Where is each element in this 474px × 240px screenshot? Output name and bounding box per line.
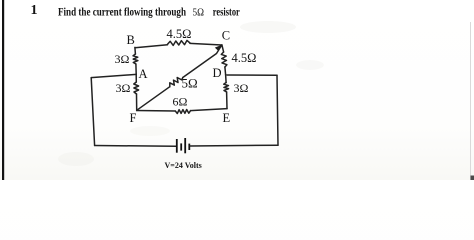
svg-text:F: F	[130, 111, 137, 125]
wire diagonal 5ohm to node C	[183, 46, 222, 78]
wire B to top resistor	[135, 45, 168, 48]
svg-text:6Ω: 6Ω	[173, 94, 188, 108]
svg-text:V=24 Volts: V=24 Volts	[165, 161, 202, 170]
resistor 5ohm diagonal zigzag	[170, 78, 183, 87]
resistor 4.5ohm C-D zigzag	[221, 52, 227, 67]
battery short plate right	[188, 144, 190, 150]
wire bottom resistor to node E	[191, 109, 227, 111]
svg-text:Find the current flowing throu: Find the current flowing through	[58, 4, 186, 18]
battery short plate	[180, 143, 182, 150]
svg-text:5Ω: 5Ω	[193, 6, 205, 18]
svg-text:5Ω: 5Ω	[182, 76, 198, 91]
svg-text:4.5Ω: 4.5Ω	[167, 27, 192, 41]
svg-text:E: E	[223, 111, 231, 125]
wire node A to left outer corner	[91, 74, 136, 77]
resistor 4.5ohm B-C zigzag	[168, 40, 191, 45]
wire to node D	[224, 67, 227, 75]
resistor 6ohm F-E zigzag	[175, 110, 190, 114]
wire A down lead	[135, 74, 137, 82]
svg-text:D: D	[213, 66, 222, 80]
wire F to bottom resistor	[137, 110, 176, 113]
wire bottom outer to battery	[95, 145, 176, 148]
wire B down lead	[134, 47, 137, 54]
svg-text:B: B	[127, 33, 135, 47]
svg-text:1: 1	[31, 3, 38, 18]
wire to node A	[135, 64, 137, 74]
wire node D to right outer corner	[227, 74, 277, 76]
svg-text:4.5Ω: 4.5Ω	[232, 51, 257, 65]
svg-text:A: A	[139, 67, 148, 81]
arrowhead on diagonal at C	[215, 45, 222, 51]
battery long plate right	[184, 138, 186, 153]
svg-text:C: C	[222, 28, 230, 42]
wire C down lead	[222, 45, 224, 52]
wire diagonal F to 5ohm	[137, 87, 170, 111]
svg-text:3Ω: 3Ω	[116, 81, 131, 95]
wire left outer vertical	[91, 78, 94, 146]
resistor 3ohm D-E zigzag	[224, 83, 229, 93]
battery long plate left	[176, 139, 178, 153]
resistor 3ohm B-A zigzag	[133, 54, 138, 64]
svg-text:3Ω: 3Ω	[115, 52, 130, 66]
wire to node E	[226, 92, 228, 109]
wire to node F	[136, 94, 138, 111]
wire right outer vertical	[277, 75, 278, 145]
svg-text:resistor: resistor	[213, 4, 240, 18]
resistor 3ohm A-F zigzag	[134, 82, 139, 94]
svg-text:3Ω: 3Ω	[234, 81, 249, 95]
wire top resistor to node C	[190, 43, 222, 45]
wire battery to right outer corner	[190, 144, 278, 147]
wire D down lead	[225, 75, 228, 83]
